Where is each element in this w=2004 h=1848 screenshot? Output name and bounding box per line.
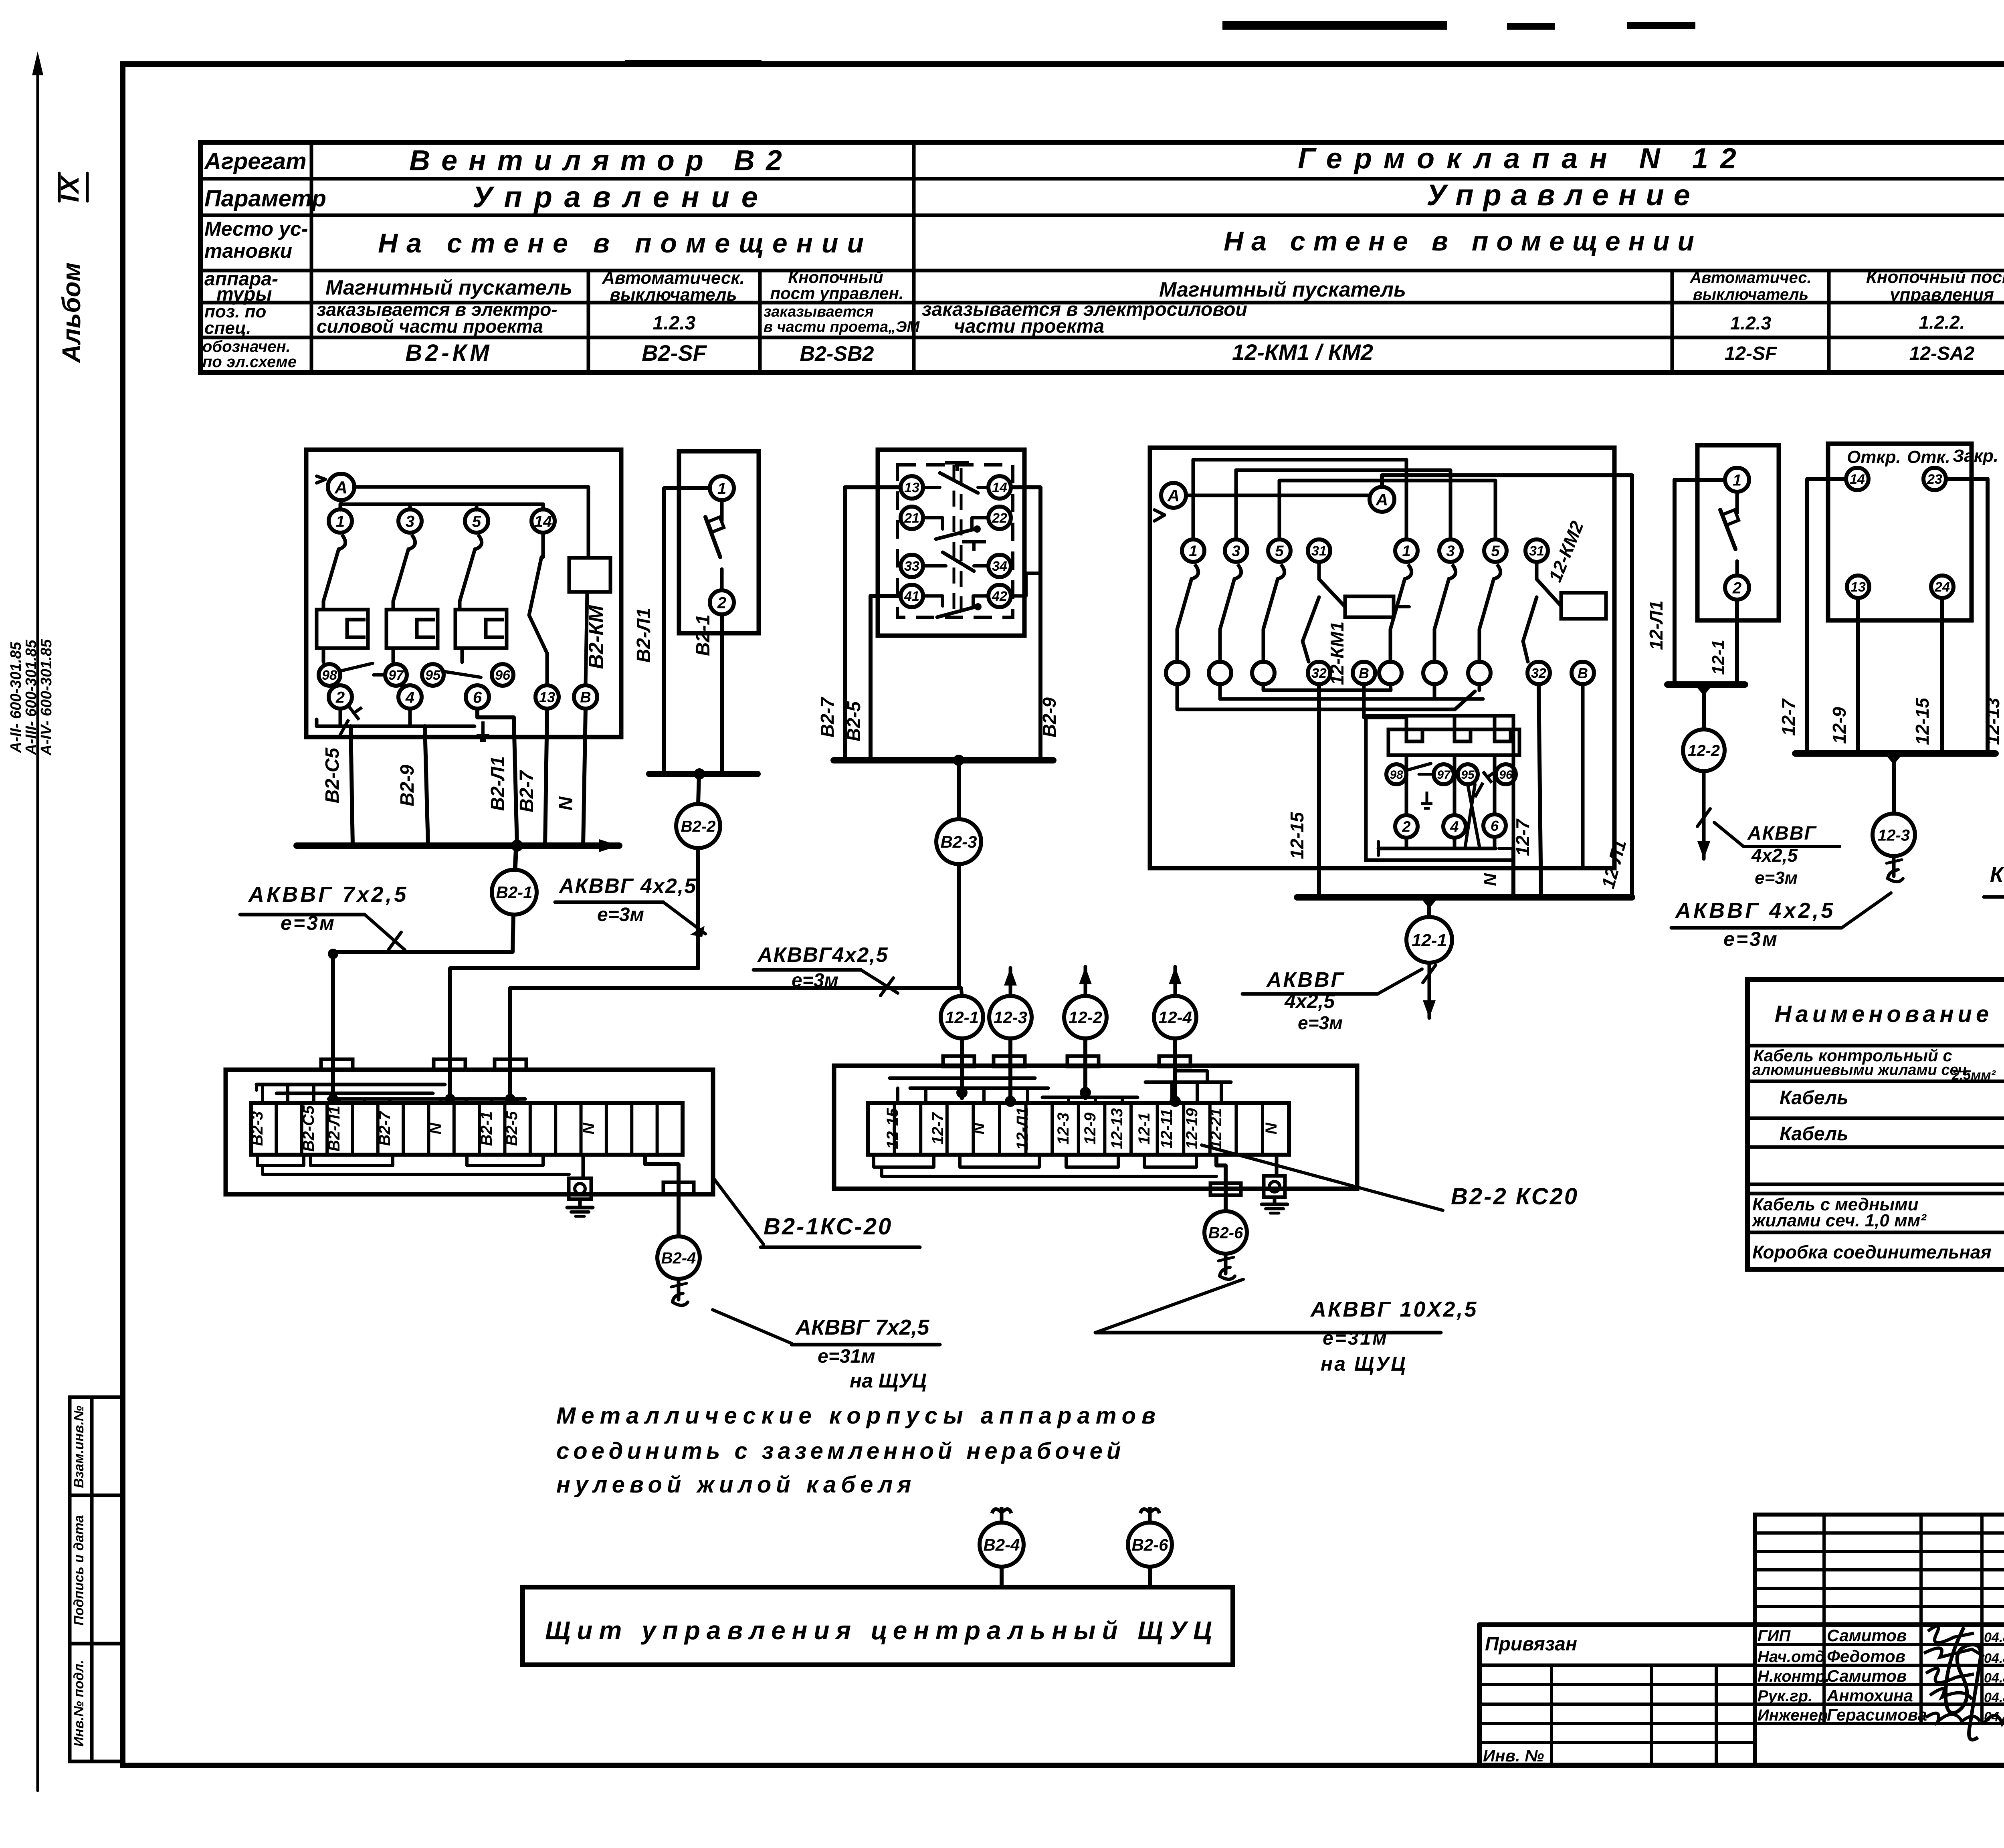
- svg-text:Антохина: Антохина: [1826, 1686, 1913, 1705]
- svg-text:12-2: 12-2: [1688, 742, 1720, 759]
- svg-text:97: 97: [1437, 768, 1451, 782]
- materials row 2 cable 7x2.5: [1780, 1081, 2004, 1117]
- title block signature rows: [1758, 1626, 2004, 1740]
- node A left: [1154, 483, 1186, 521]
- svg-text:А: А: [1167, 486, 1180, 505]
- terminal 2 of 12-SF: [1725, 561, 1749, 600]
- svg-text:е=3м: е=3м: [1755, 868, 1798, 888]
- cable entry glands terminal box 2: [943, 1056, 1190, 1066]
- button post dashed frame: [897, 463, 1013, 620]
- svg-text:4: 4: [1450, 819, 1459, 836]
- svg-text:31: 31: [1311, 543, 1327, 559]
- switch blade 12-SF: [1720, 492, 1739, 549]
- cable label AKVVG 4x2.5 for 12-3: [1671, 893, 1891, 950]
- svg-text:Н.контр.: Н.контр.: [1758, 1668, 1830, 1685]
- cable label AKVVG 4x2.5 for 12-2: [1714, 822, 1840, 888]
- terminal circles 2 4 6 of 12: [1395, 755, 1506, 838]
- svg-text:по эл.схеме: по эл.схеме: [202, 353, 297, 371]
- svg-text:Герасимова: Герасимова: [1827, 1705, 1927, 1724]
- terminal strip 2 cell labels: [884, 1107, 1280, 1150]
- svg-text:Рук.гр.: Рук.гр.: [1758, 1687, 1812, 1705]
- svg-text:4: 4: [405, 689, 414, 706]
- svg-text:12-7: 12-7: [1778, 698, 1799, 736]
- svg-text:тановки: тановки: [204, 240, 292, 262]
- svg-text:Магнитный пускатель: Магнитный пускатель: [1159, 278, 1406, 301]
- node A (B2-KM phase A): [317, 474, 354, 500]
- magnetic starter B2-KM enclosure: [306, 450, 621, 737]
- cable marker 12-1 main: [1406, 917, 1452, 963]
- svg-text:выключатель: выключатель: [1693, 286, 1809, 303]
- svg-text:на ЩУЦ: на ЩУЦ: [850, 1369, 927, 1392]
- svg-text:заказывается: заказывается: [764, 303, 874, 320]
- button post labels Otkr Otk Zakr: [1847, 446, 1998, 467]
- svg-text:КНР 7Х1,0: КНР 7Х1,0: [1990, 862, 2004, 887]
- auxiliary contact circles 98 97 95 96: [319, 663, 513, 686]
- svg-text:Нач.отд: Нач.отд: [1758, 1648, 1825, 1666]
- cable marker 12-3: [1873, 814, 1915, 882]
- svg-text:2: 2: [717, 594, 726, 612]
- svg-text:Отк.: Отк.: [1907, 447, 1950, 467]
- svg-text:22: 22: [992, 511, 1007, 526]
- svg-text:21: 21: [904, 511, 919, 526]
- svg-text:12-9: 12-9: [1081, 1112, 1099, 1145]
- svg-text:6: 6: [473, 689, 482, 706]
- svg-text:АКВВГ: АКВВГ: [1747, 823, 1817, 844]
- svg-text:12-3: 12-3: [994, 1008, 1027, 1027]
- svg-text:1: 1: [1189, 543, 1197, 560]
- header table row labels: [202, 148, 326, 371]
- terminal strip 1 cell labels: [248, 1105, 598, 1151]
- thermal relay block 12: [1364, 684, 1519, 755]
- svg-text:42: 42: [992, 589, 1007, 604]
- svg-text:N: N: [1263, 1122, 1280, 1134]
- svg-text:е=3м: е=3м: [1723, 928, 1779, 950]
- svg-text:B2-SF: B2-SF: [642, 340, 707, 366]
- svg-text:12-SF: 12-SF: [1725, 343, 1778, 364]
- svg-text:В2-С5: В2-С5: [300, 1105, 317, 1151]
- svg-text:е=3м: е=3м: [1298, 1012, 1343, 1033]
- svg-text:жилами сеч. 1,0 мм²: жилами сеч. 1,0 мм²: [1751, 1211, 1927, 1230]
- svg-text:В2-6: В2-6: [1208, 1224, 1243, 1242]
- svg-text:95: 95: [425, 668, 441, 683]
- svg-text:В2-9: В2-9: [397, 765, 418, 806]
- button terminals 13 24: [1847, 576, 1953, 598]
- materials table headers: [1775, 991, 2004, 1038]
- svg-text:е=31м: е=31м: [818, 1346, 875, 1367]
- outgoing arrow cable 12-1: [1423, 963, 1436, 1018]
- cable marker B2-1: [492, 870, 537, 952]
- svg-text:12-1: 12-1: [1709, 640, 1728, 675]
- svg-text:96: 96: [1499, 768, 1513, 782]
- svg-text:спец.: спец.: [204, 318, 251, 338]
- button contacts 33 34: [901, 542, 1011, 577]
- svg-text:24: 24: [1934, 580, 1950, 595]
- svg-text:14: 14: [992, 480, 1007, 495]
- svg-text:Кабель: Кабель: [1780, 1087, 1848, 1109]
- svg-text:е=3м: е=3м: [792, 970, 838, 991]
- junction to cable 12-2: [1695, 685, 1713, 729]
- svg-text:Магнитный пускатель: Магнитный пускатель: [325, 276, 572, 299]
- cable marker B2-3: [936, 819, 981, 864]
- cable label AKVVG 7x2.5 for B2-1: [240, 883, 408, 950]
- svg-text:В2-1: В2-1: [478, 1111, 495, 1146]
- svg-text:12-13: 12-13: [1108, 1108, 1126, 1149]
- aux linkage marks inside B2-KM: [317, 706, 489, 741]
- svg-text:3: 3: [1446, 543, 1455, 560]
- svg-text:1: 1: [717, 480, 726, 497]
- svg-text:23: 23: [1927, 472, 1942, 487]
- svg-text:N: N: [970, 1122, 988, 1134]
- terminal 1 of 12-SF: [1725, 468, 1749, 492]
- svg-text:В2-7: В2-7: [376, 1111, 394, 1146]
- wire A to coil feed: [354, 485, 588, 489]
- strip 1 bottom jumpers: [257, 1155, 569, 1174]
- svg-text:12-Л1: 12-Л1: [1014, 1107, 1031, 1150]
- svg-text:Гермоклапан N 12: Гермоклапан N 12: [1298, 143, 1748, 175]
- svg-text:В2-КМ: В2-КМ: [405, 340, 492, 366]
- svg-text:1.2.3: 1.2.3: [653, 313, 696, 334]
- wires from markers into terminal box 2: [956, 1038, 1181, 1107]
- outgoing arrow cable 12-2: [1697, 771, 1710, 859]
- svg-text:На стене в помещении: На стене в помещении: [378, 228, 873, 259]
- button post 12-SA2 enclosure: [1828, 444, 1972, 620]
- svg-text:98: 98: [1390, 768, 1403, 782]
- svg-text:04.84: 04.84: [1984, 1690, 2004, 1705]
- svg-text:В: В: [1578, 665, 1588, 681]
- junction box B2-1 KS-20 enclosure: [226, 1070, 713, 1194]
- svg-text:Альбом: Альбом: [57, 263, 86, 364]
- auxiliary sub-box of starter 12: [1366, 716, 1513, 860]
- svg-text:Кнопочный пост: Кнопочный пост: [1866, 267, 2004, 287]
- svg-text:АКВВГ4х2,5: АКВВГ4х2,5: [757, 943, 889, 967]
- wire from B KM2: [1581, 684, 1585, 868]
- svg-text:В2-5: В2-5: [843, 701, 864, 741]
- button terminals 14 23: [1846, 468, 1946, 490]
- cable label AKVVG 10x2.5 to control board: [1095, 1279, 1478, 1375]
- node A right: [1370, 487, 1394, 512]
- header row 5: order notes: [317, 299, 2004, 337]
- svg-text:В2-Л1: В2-Л1: [487, 756, 509, 811]
- svg-text:на ЩУЦ: на ЩУЦ: [1321, 1353, 1407, 1375]
- svg-text:B2-SB2: B2-SB2: [800, 342, 874, 366]
- svg-text:А: А: [334, 478, 347, 497]
- svg-text:АКВВГ 7х2,5: АКВВГ 7х2,5: [248, 883, 408, 907]
- cable marker B2-6: [1204, 1211, 1247, 1279]
- svg-text:12-1: 12-1: [1135, 1113, 1153, 1145]
- svg-text:12-2: 12-2: [1069, 1008, 1102, 1027]
- svg-text:нулевой жилой кабеля: нулевой жилой кабеля: [556, 1472, 916, 1498]
- svg-text:В2-9: В2-9: [1039, 697, 1060, 737]
- svg-text:В2-5: В2-5: [503, 1111, 521, 1146]
- earthing clamp terminal box 2: [1262, 1155, 1287, 1213]
- svg-text:12-21: 12-21: [1207, 1108, 1225, 1149]
- svg-text:управления: управления: [1889, 285, 1994, 305]
- svg-text:13: 13: [539, 689, 555, 705]
- svg-text:N: N: [580, 1122, 598, 1134]
- svg-text:В2-3: В2-3: [248, 1111, 266, 1146]
- svg-text:силовой части проекта: силовой части проекта: [317, 316, 543, 337]
- svg-text:1.2.3: 1.2.3: [1730, 313, 1772, 333]
- cable label AKVVG 4x2.5 for 12-1: [1242, 968, 1422, 1033]
- junction node to cable B2-1: [511, 840, 523, 870]
- title block grid: [1479, 1515, 2004, 1765]
- wire 12-1 from 12-SF terminal 2: [1709, 600, 1737, 685]
- svg-text:12-7: 12-7: [929, 1112, 947, 1145]
- cable bus B2 group 1: [297, 839, 619, 852]
- svg-text:3: 3: [406, 513, 414, 530]
- cable marker B2-6 at control board: [1128, 1507, 1172, 1587]
- svg-text:12-4: 12-4: [1158, 1008, 1192, 1027]
- automatic switch 12-SF enclosure: [1697, 445, 1779, 620]
- svg-text:Самитов: Самитов: [1827, 1666, 1907, 1685]
- svg-text:6: 6: [1491, 818, 1499, 834]
- svg-text:32: 32: [1311, 666, 1327, 681]
- svg-text:Федотов: Федотов: [1827, 1647, 1905, 1666]
- svg-text:14: 14: [534, 513, 552, 530]
- svg-text:04.84: 04.84: [1984, 1651, 2004, 1666]
- magnetic starter 12-KM1/KM2 enclosure: [1150, 448, 1614, 868]
- svg-text:13: 13: [1850, 580, 1866, 595]
- svg-text:14: 14: [1850, 472, 1865, 487]
- svg-text:12-9: 12-9: [1829, 707, 1850, 744]
- wire B2-L1 from B2-SF: [633, 488, 710, 774]
- cable bus 12-SF group: [1667, 681, 1745, 688]
- wire from B2-3 to terminal box 1: [510, 864, 959, 1100]
- cable label AKVVG 7x2.5 to control board: [713, 1310, 940, 1392]
- svg-text:АКВВГ 10Х2,5: АКВВГ 10Х2,5: [1310, 1297, 1478, 1321]
- svg-text:алюминиевыми жилами сеч.: алюминиевыми жилами сеч.: [1752, 1062, 1971, 1079]
- svg-text:е=3м: е=3м: [597, 904, 644, 925]
- svg-text:В2-2: В2-2: [681, 818, 716, 835]
- main contact blades 12-KM1: [1177, 564, 1285, 662]
- label B2-2 KS20: [1202, 1145, 1579, 1210]
- svg-text:96: 96: [495, 668, 511, 683]
- svg-text:А-IV- 600-301.85: А-IV- 600-301.85: [38, 639, 55, 756]
- svg-text:Инженер: Инженер: [1758, 1707, 1828, 1724]
- outgoing cable to B2-6: [1210, 1155, 1241, 1211]
- coil designation B2-KM: [585, 605, 608, 669]
- svg-text:5: 5: [1275, 543, 1284, 560]
- wire 12-7 from contact 32 KM2: [1512, 684, 1541, 897]
- svg-text:97: 97: [388, 668, 404, 683]
- wire 12-7 from 12-SA2: [1778, 479, 1846, 753]
- junction to cable 12-3: [1885, 753, 1903, 814]
- wire 12-L1 from 12-SF: [1646, 480, 1725, 685]
- svg-text:Агрегат: Агрегат: [204, 148, 307, 174]
- cable marker B2-2: [676, 804, 720, 848]
- header row 4: apparatus names: [325, 265, 2004, 305]
- svg-text:34: 34: [992, 559, 1007, 574]
- svg-text:Коробка соединительная: Коробка соединительная: [1752, 1242, 1992, 1262]
- wire loop 12-L1 inside starter box: [1186, 475, 1632, 897]
- svg-text:А-II- 600-301.85: А-II- 600-301.85: [8, 642, 24, 753]
- cable bus 12-SA2 group: [1795, 750, 1996, 757]
- svg-text:В2-1: В2-1: [496, 883, 532, 902]
- svg-text:АКВВГ 7х2,5: АКВВГ 7х2,5: [795, 1315, 929, 1339]
- wire B2-1 from B2-SF terminal 2: [693, 614, 722, 774]
- main contact blades 12-KM2: [1390, 564, 1501, 662]
- wire B2-7 from contact 13: [817, 487, 901, 760]
- wire B2-C5 from contact 2: [322, 726, 353, 846]
- svg-text:Металлические корпусы аппара: Металлические корпусы аппаратов: [556, 1403, 1161, 1429]
- svg-text:Инв.№ подл.: Инв.№ подл.: [71, 1660, 87, 1747]
- lower jumper bar of 12 box: [1378, 784, 1496, 855]
- outgoing cable to B2-4: [645, 1155, 694, 1235]
- wire N from contact B: [556, 709, 586, 846]
- svg-text:Вентилятор В2: Вентилятор В2: [409, 145, 793, 177]
- svg-text:В2-Л1: В2-Л1: [633, 608, 655, 662]
- wire from B2-2 to terminal box 1: [450, 848, 698, 1100]
- svg-text:98: 98: [322, 668, 337, 683]
- contact terminal circles 1 3 5 14 of B2-KM: [329, 504, 555, 533]
- header row 3: mounting place: [378, 217, 2004, 259]
- svg-text:В2-2 КС20: В2-2 КС20: [1451, 1184, 1579, 1210]
- incoming cable marker 12-2 at box 2: [1064, 967, 1107, 1038]
- svg-text:5: 5: [1491, 543, 1500, 560]
- svg-text:N: N: [427, 1122, 444, 1134]
- svg-text:В2-7: В2-7: [817, 697, 838, 737]
- svg-text:Инв. №: Инв. №: [1483, 1746, 1544, 1765]
- svg-text:12-КМ1 / КМ2: 12-КМ1 / КМ2: [1232, 339, 1373, 365]
- svg-text:Откр.: Откр.: [1847, 447, 1901, 467]
- cable marker B2-4: [657, 1236, 700, 1305]
- materials row 3 cable 10x2.5: [1780, 1115, 2004, 1149]
- terminal strip 2 cells: [868, 1103, 1289, 1155]
- svg-text:В2-Л1: В2-Л1: [325, 1106, 343, 1151]
- terminal circles 1 3 5 31 of 12-KM1: [1182, 539, 1330, 562]
- wire top link bar B2-KM: [340, 500, 543, 504]
- cable label AKVVG 4x2.5 for B2-3: [754, 943, 898, 996]
- svg-text:Привязан: Привязан: [1485, 1634, 1577, 1655]
- svg-text:В2-1КС-20: В2-1КС-20: [764, 1214, 893, 1240]
- svg-text:2,5мм²: 2,5мм²: [1951, 1068, 1996, 1083]
- coil circuit 12-KM1: [1303, 562, 1409, 685]
- switch blade B2-SF: [705, 500, 724, 557]
- thermal relay elements B2-KM: [317, 610, 507, 662]
- svg-text:N: N: [1481, 873, 1500, 886]
- svg-text:АКВВГ: АКВВГ: [1266, 968, 1345, 992]
- svg-text:12-13: 12-13: [1982, 698, 2003, 745]
- svg-text:32: 32: [1531, 666, 1546, 681]
- cable bus 12 group 1: [1297, 894, 1632, 901]
- wire B2-L1 from contact 6: [477, 709, 517, 846]
- materials table grid: [1747, 980, 2004, 1269]
- svg-text:Кабель: Кабель: [1780, 1123, 1848, 1145]
- incoming cable marker 12-1 at box 2: [941, 988, 983, 1038]
- wire B2-5 from contact 41: [843, 596, 901, 760]
- cable marker 12-2: [1683, 729, 1725, 771]
- junction to cable B2-2: [694, 768, 705, 804]
- svg-text:12-11: 12-11: [1158, 1109, 1176, 1148]
- svg-text:41: 41: [904, 589, 919, 604]
- svg-text:Место ус-: Место ус-: [204, 218, 308, 240]
- svg-text:N: N: [556, 796, 577, 810]
- contactor coil B2-KM: [569, 487, 610, 685]
- cable entry glands terminal box 1: [321, 1059, 526, 1070]
- title block binding row: [1483, 1634, 1577, 1765]
- junction box B2-2 KS20 enclosure: [834, 1066, 1357, 1189]
- svg-text:Параметр: Параметр: [204, 186, 326, 212]
- svg-text:В: В: [580, 689, 591, 706]
- link 42 to right wire: [1011, 573, 1040, 596]
- svg-text:3: 3: [1232, 543, 1240, 560]
- strip 1 top jumper wires: [257, 1085, 525, 1104]
- svg-text:12-15: 12-15: [884, 1108, 901, 1149]
- svg-text:В2-3: В2-3: [940, 832, 977, 851]
- scan smudge top edge: [625, 21, 1695, 66]
- svg-text:соединить с заземленной нер: соединить с заземленной нерабочей: [556, 1438, 1125, 1464]
- svg-text:Подпись и дата: Подпись и дата: [71, 1515, 87, 1626]
- incoming cable marker 12-4 at box 2: [1154, 967, 1196, 1038]
- cable bus B2-SB2 group: [834, 757, 1053, 763]
- svg-text:Закр.: Закр.: [1953, 446, 1998, 466]
- cable marker B2-4 at control board: [980, 1507, 1024, 1587]
- svg-text:В2-1: В2-1: [693, 614, 714, 656]
- terminal circles 1 3 5 31 of 12-KM2: [1395, 539, 1548, 562]
- svg-text:В2-КМ: В2-КМ: [585, 605, 608, 669]
- svg-text:выключатель: выключатель: [610, 285, 737, 305]
- svg-text:1: 1: [336, 513, 345, 530]
- svg-text:12-19: 12-19: [1183, 1108, 1201, 1149]
- svg-text:В2-4: В2-4: [983, 1535, 1020, 1554]
- cable bus B2-SF group: [649, 771, 758, 777]
- svg-text:12-7: 12-7: [1512, 818, 1533, 856]
- coil circuit 12-KM2: [1523, 518, 1606, 662]
- wire B2-7 from contact 13: [516, 709, 547, 846]
- svg-text:В2-4: В2-4: [661, 1249, 696, 1267]
- svg-text:04.84: 04.84: [1984, 1630, 2004, 1645]
- svg-text:95: 95: [1461, 768, 1475, 782]
- svg-text:31: 31: [1529, 543, 1544, 559]
- svg-text:Управление: Управление: [1426, 178, 1700, 212]
- svg-text:Самитов: Самитов: [1827, 1626, 1907, 1645]
- button contacts 41 42: [901, 585, 1011, 617]
- wire from B2-1 to terminal box 1: [328, 949, 512, 1100]
- svg-text:33: 33: [904, 559, 919, 574]
- automatic switch B2-SF enclosure: [679, 451, 759, 633]
- header row 2: parameter: [473, 178, 1700, 214]
- svg-text:части проекта: части проекта: [954, 316, 1104, 337]
- svg-text:На стене в помещении: На стене в помещении: [1224, 226, 1702, 256]
- button post B2-SB2 enclosure: [878, 450, 1024, 636]
- document set numbers (rotated): [8, 639, 55, 756]
- cable label AKVVG 4x2.5 for B2-2: [555, 875, 705, 937]
- svg-text:Автоматичес.: Автоматичес.: [1689, 269, 1811, 287]
- materials row 5 junction box: [1752, 1233, 2004, 1268]
- svg-text:1: 1: [1402, 543, 1410, 560]
- svg-text:1.2.2.: 1.2.2.: [1919, 312, 1965, 333]
- junction to cable 12-1: [1420, 897, 1438, 917]
- header row 1: unit names: [409, 143, 2004, 180]
- margin stamp boxes: [70, 1397, 123, 1761]
- note about earthing of metal enclosures: [556, 1403, 1161, 1498]
- aux contacts 98 97 95 96 of 12: [1386, 763, 1516, 808]
- left margin trim line with arrow: [32, 51, 43, 1791]
- svg-text:пост управлен.: пост управлен.: [770, 284, 903, 303]
- central control board SHCHUC: [523, 1587, 1233, 1665]
- svg-text:В2-6: В2-6: [1131, 1535, 1168, 1554]
- album label: [55, 173, 87, 364]
- svg-text:12-3: 12-3: [1878, 826, 1910, 844]
- svg-text:АКВВГ 4х2,5: АКВВГ 4х2,5: [558, 875, 697, 898]
- svg-text:2: 2: [335, 689, 345, 706]
- incoming cable marker 12-3 at box 2: [989, 968, 1032, 1038]
- svg-text:Взам.инв.№: Взам.инв.№: [71, 1406, 87, 1488]
- svg-text:12-1: 12-1: [945, 1008, 979, 1027]
- header row 6: schematic designations: [405, 339, 2004, 366]
- wire 12-13 from 12-SA2: [1946, 479, 2003, 753]
- svg-text:А-III- 600-301.85: А-III- 600-301.85: [23, 640, 40, 755]
